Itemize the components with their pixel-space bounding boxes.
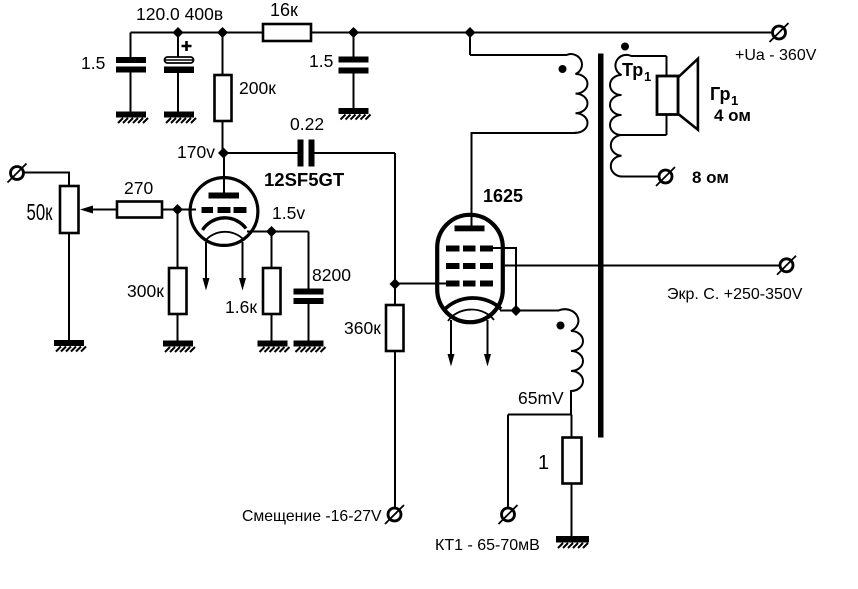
svg-text:270: 270 [124,178,153,198]
terminal screen [777,256,796,275]
ground G2 [164,112,196,124]
svg-text:1.5v: 1.5v [272,203,305,223]
potentiometer 50k [60,186,79,233]
filament arrow V2 right [484,320,491,367]
transformer Tp1 feedback winding [508,309,583,438]
svg-text:Смещение -16-27V: Смещение -16-27V [242,508,382,525]
polarity dot feedback [557,322,565,330]
wire top bus right [311,32,773,34]
filament arrow V1 left [203,242,210,291]
wire to KT1 terminal [507,415,509,509]
wire drop to C3 [353,33,355,58]
wire drop to C1 [130,33,132,58]
wire C1 to ground [130,73,132,113]
input terminal [8,164,27,183]
resistor 16k [263,24,311,41]
svg-text:170v: 170v [177,142,215,162]
svg-text:200к: 200к [239,78,276,98]
terminal bias [385,505,404,524]
junction cathode node [266,226,277,237]
wire top bus left [131,32,264,34]
svg-text:Экр. С. +250-350V: Экр. С. +250-350V [667,286,803,303]
svg-text:50к: 50к [27,199,54,225]
transformer core [598,54,604,438]
capacitor C2 electrolytic 120.0 [164,41,194,73]
svg-text:120.0 400в: 120.0 400в [136,4,223,24]
filament arrow V2 left [448,320,455,367]
wire 170v to C4 [224,152,298,154]
resistor 200k [215,75,232,121]
wire grid V2 [395,283,446,285]
svg-text:0.22: 0.22 [290,114,324,134]
wire input to pot [24,173,70,187]
transformer Tp1 primary [470,54,588,215]
wire to R 1.6k [271,232,273,269]
ground G8 [556,536,589,548]
tube V1 12SF5GT [190,153,258,245]
svg-text:1.5: 1.5 [309,51,333,71]
svg-text:8 ом: 8 ом [692,168,729,187]
wire drop to C2 [177,33,179,58]
wire C3 to ground [353,74,355,109]
wire grid V1 [162,209,196,211]
ground G3 [339,108,371,120]
svg-text:12SF5GT: 12SF5GT [264,169,345,190]
resistor 300k [169,268,187,314]
wire cathode V2 [500,310,516,312]
tube V2 1625 [437,134,503,323]
terminal KT1 [499,505,518,524]
capacitor C4 0.22 [298,140,315,167]
wire R300k to ground [177,314,179,342]
wire C5 ground [308,304,310,341]
svg-text:Гр: Гр [710,84,731,104]
svg-text:Тр: Тр [622,60,643,80]
ground G5 [163,341,195,353]
wire node D to primary [469,33,471,56]
svg-text:300к: 300к [127,281,164,301]
junction node B [217,27,228,38]
junction grid node [172,204,183,215]
wire pot to ground [68,233,70,341]
junction grid V2 node [390,279,401,290]
ground G1 [116,112,148,124]
ground G7 [294,341,326,353]
terminal 8 om [656,167,675,186]
wire C4 to grid line [315,152,396,154]
wire down to R 360k [394,153,396,306]
svg-text:1: 1 [644,69,651,84]
node 170v diamond [218,148,229,159]
resistor 1 [563,438,582,484]
capacitor C1 1.5 [116,57,146,73]
polarity dot primary [559,65,567,73]
resistor 1.6k [263,268,281,314]
wire tap to speaker bottom [666,115,668,136]
capacitor C5 8200 [294,289,324,305]
wire secondary top to speaker [666,56,668,77]
polarity dot secondary [621,43,629,51]
wire to R 300k [177,210,179,269]
svg-text:4 ом: 4 ом [714,106,751,125]
junction node C [348,27,359,38]
resistor 360k [386,305,404,351]
svg-text:1625: 1625 [483,186,523,206]
wire R1.6k ground [271,314,273,342]
junction node D [465,27,476,38]
wire R1 to ground [571,484,573,537]
wire to C5 [308,232,310,290]
resistor 270 [117,202,162,218]
junction node A [173,27,184,38]
junction cathode V2 node [511,305,522,316]
svg-text:16к: 16к [270,0,298,20]
wiper arrow [80,206,117,214]
svg-text:8200: 8200 [312,265,351,285]
transformer Tp1 secondary [610,55,667,177]
svg-text:65mV: 65mV [518,388,564,408]
speaker Gp1 [657,59,698,130]
ground G6 [258,341,290,353]
svg-text:КТ1 - 65-70мВ: КТ1 - 65-70мВ [435,537,540,554]
svg-text:360к: 360к [344,318,381,338]
capacitor C3 1.5 [339,57,369,74]
terminal +Ua [770,23,789,42]
wire C2 to ground [177,73,179,112]
ground G4 [54,340,86,352]
svg-text:1: 1 [538,452,549,474]
svg-text:+Ua - 360V: +Ua - 360V [735,47,817,64]
wire beam plates [493,248,516,311]
filament arrow V1 right [239,242,246,291]
wire screen grid [505,265,780,267]
wire R200k to node 170v [222,121,224,154]
wire to R 200k [222,33,224,76]
svg-text:1.6к: 1.6к [225,297,257,317]
svg-text:1.5: 1.5 [81,53,105,73]
wire cathode V1 [247,231,309,233]
wire R360k to bias terminal [394,351,396,509]
